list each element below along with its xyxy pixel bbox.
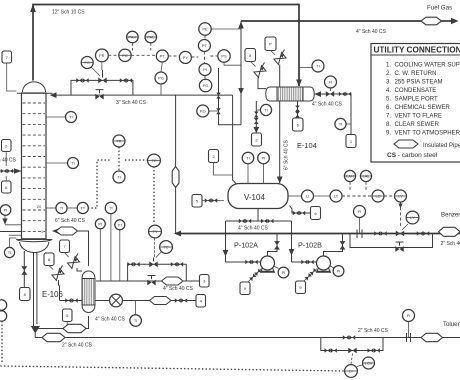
svg-text:6" Sch 40 CS: 6" Sch 40 CS — [284, 139, 290, 170]
pump B discharge with valve — [324, 234, 346, 257]
toluene main line block valves — [343, 335, 355, 340]
column bottoms line (double) — [31, 252, 40, 338]
instrument LAH LAL — [344, 170, 355, 191]
pressure control valve PCV-A — [254, 63, 266, 89]
instrument PT — [156, 50, 168, 62]
reflux riser from pump header — [175, 95, 177, 233]
instrument LC — [342, 190, 384, 202]
svg-text:CONDENSATE: CONDENSATE — [395, 87, 437, 94]
svg-text:PI: PI — [282, 270, 286, 275]
instrument FC (reflux controller) — [81, 57, 100, 77]
svg-text:UTILITY CONNECTIONS: UTILITY CONNECTIONS — [374, 46, 460, 55]
pump B drain to square 9 — [296, 268, 318, 293]
svg-text:20: 20 — [37, 205, 41, 209]
svg-text:P-102B: P-102B — [298, 241, 322, 250]
svg-text:TI: TI — [60, 206, 64, 211]
svg-text:Toluene: Toluene — [443, 321, 460, 328]
svg-text:255 PSIA STEAM: 255 PSIA STEAM — [395, 79, 443, 86]
svg-text:PY: PY — [183, 55, 189, 60]
instrument PI (column bottom left) — [0, 205, 21, 225]
svg-text:PG: PG — [158, 76, 164, 81]
svg-text:6.: 6. — [386, 104, 391, 111]
svg-text:PI: PI — [203, 67, 207, 72]
vapor bypass line from reflux line to V-104 — [233, 95, 236, 183]
svg-text:TI: TI — [316, 64, 320, 69]
svg-text:FI: FI — [407, 313, 411, 318]
dashed signal PY to PT2 — [191, 56, 198, 58]
instrument TI chain low — [113, 171, 125, 183]
svg-text:E-104: E-104 — [297, 141, 317, 150]
instrument PI stack — [199, 52, 211, 76]
utility tag square (feed vent) — [2, 140, 12, 167]
svg-text:3" Sch 40 CS: 3" Sch 40 CS — [116, 100, 147, 106]
svg-text:TI: TI — [69, 115, 73, 120]
pump A drain to square 9 — [240, 268, 262, 294]
controller circle bars — [81, 37, 419, 371]
utility tag square P (PCV B inlet) — [265, 37, 276, 55]
line into column left at sump — [0, 231, 22, 233]
instrument TC chain — [148, 154, 161, 167]
svg-text:TI: TI — [8, 250, 12, 255]
svg-text:Fuel Gas: Fuel Gas — [427, 5, 452, 12]
instrument PG stack low — [199, 76, 211, 92]
reboiler feed line — [37, 316, 89, 329]
svg-text:5.: 5. — [386, 96, 391, 103]
svg-text:6" Sch 40 CS: 6" Sch 40 CS — [55, 218, 86, 224]
instrument LY at benzene valve — [406, 211, 419, 224]
V-104 right drain to square 6 — [290, 206, 321, 220]
svg-text:TI: TI — [109, 206, 113, 211]
svg-text:3.: 3. — [386, 79, 391, 86]
column nozzle TI middle — [46, 158, 79, 169]
reflux globe valve (bypass) — [95, 90, 103, 100]
toluene product line 2" — [35, 337, 460, 339]
svg-text:LT: LT — [334, 194, 339, 199]
svg-text:PI: PI — [337, 269, 341, 274]
svg-text:PG: PG — [200, 109, 206, 114]
svg-text:4" Sch 40 CS: 4" Sch 40 CS — [95, 317, 126, 323]
svg-text:LI: LI — [306, 194, 309, 199]
svg-text:4" Sch 40 CS: 4" Sch 40 CS — [163, 286, 194, 292]
reflux return line 3" into column — [50, 92, 233, 98]
instrument PG (vent leg) — [197, 105, 219, 117]
instrument TI on V-104 — [242, 152, 254, 183]
svg-text:V-104: V-104 — [244, 193, 265, 202]
V-104 reflux drum — [228, 184, 288, 209]
instrument LT — [314, 190, 343, 202]
distillation column T-101 shell — [17, 82, 53, 239]
utility tag square 1 (cooling water) — [346, 135, 356, 148]
instrument FR — [96, 49, 109, 70]
svg-text:1: 1 — [41, 230, 43, 234]
svg-text:VENT TO ATMOSPHERE: VENT TO ATMOSPHERE — [395, 130, 460, 137]
instrument LY — [384, 190, 407, 226]
utility tag square 6 (E-104 right drain) — [293, 118, 304, 131]
svg-text:4" Sch 40 CS: 4" Sch 40 CS — [238, 226, 269, 232]
svg-text:4" Sch 40 CS: 4" Sch 40 CS — [312, 102, 343, 108]
column nozzle TI upper — [46, 112, 77, 123]
svg-text:SAMPLE PORT: SAMPLE PORT — [395, 96, 439, 103]
column trays (dashed) — [23, 103, 46, 231]
column bottom flange and dome — [16, 239, 52, 253]
svg-text:4" Sch 40 CS: 4" Sch 40 CS — [0, 158, 17, 164]
utility tag square 5 (sample) with valves to V-104 — [192, 195, 224, 208]
svg-text:CS - carbon steel: CS - carbon steel — [387, 152, 438, 159]
svg-text:Insulated Pipe: Insulated Pipe — [423, 143, 460, 149]
manifold right drop to pump B — [289, 221, 317, 264]
toluene orifice and FI — [403, 310, 415, 343]
fuel gas header line — [241, 18, 459, 24]
svg-text:2" Sch 40: 2" Sch 40 — [441, 241, 460, 247]
svg-text:TI: TI — [339, 122, 343, 127]
insulated symbol vapor return — [56, 227, 78, 235]
utility tag square 4 (condensate) — [196, 295, 206, 308]
instrument LY toluene — [345, 354, 358, 378]
svg-text:PE: PE — [202, 27, 208, 32]
fuel gas vent leg with block valves — [216, 68, 241, 125]
instrument LI — [288, 190, 314, 202]
reflux control valve FCV — [98, 70, 106, 83]
steam control valve TCV with loop — [127, 258, 186, 282]
utility tag square 8 (PCV A inlet) — [245, 49, 256, 67]
instrument TI steam (large) — [105, 202, 116, 281]
utility tag square 2 (E-104 drain) — [252, 133, 262, 146]
instrument LC toluene — [357, 357, 375, 369]
svg-text:PS: PS — [221, 54, 227, 59]
instrument FI at E-104 outlet — [325, 76, 337, 91]
svg-text:1.: 1. — [386, 62, 391, 69]
steam TC near valve — [156, 241, 172, 258]
instrument TI on overhead riser — [299, 60, 324, 72]
instrument TI (column skirt) — [4, 238, 16, 258]
instrument PI steam — [95, 219, 105, 281]
svg-text:TT: TT — [80, 206, 85, 211]
svg-text:7.: 7. — [386, 113, 391, 120]
utility tag square 5 (E-106 bottom) — [63, 309, 73, 325]
column nozzle TI / TT pair — [46, 202, 88, 213]
utility tag square (feed drain) — [2, 176, 12, 193]
instrument PS — [210, 50, 241, 65]
instrument PY — [179, 51, 191, 63]
steam line from utility to E-106 — [96, 276, 200, 286]
instrument PT2 — [198, 35, 210, 51]
instrument PC — [119, 49, 131, 61]
E-104 left drain leg — [254, 101, 260, 133]
signal dotted TT to temperature controller chain — [88, 148, 154, 225]
insulated symbol toluene near column — [42, 333, 65, 341]
pump suction / product header — [174, 231, 460, 237]
toluene LCV station bypass loop — [321, 338, 383, 354]
svg-text:PG: PG — [203, 83, 209, 88]
overhead vapor line 12" to E-104 — [30, 4, 302, 87]
instrument TY top — [113, 135, 125, 147]
V-104 bottom outlet manifold — [226, 209, 292, 224]
svg-text:PI: PI — [262, 156, 266, 161]
svg-text:VENT TO FLARE: VENT TO FLARE — [395, 113, 442, 120]
pump P-102B — [298, 241, 331, 273]
svg-text:9.: 9. — [386, 130, 391, 137]
insulated symbol benzene — [439, 227, 460, 236]
svg-text:12" Sch 10 CS: 12" Sch 10 CS — [52, 10, 85, 16]
pump A discharge with valve — [268, 234, 280, 257]
pump P-102A — [234, 241, 275, 273]
benzene line block valves — [374, 231, 429, 236]
svg-text:4.: 4. — [386, 87, 391, 94]
instrument TI on cw leg — [335, 118, 351, 129]
svg-text:P-102A: P-102A — [234, 241, 258, 250]
svg-text:FI: FI — [358, 209, 362, 214]
svg-text:FR: FR — [99, 53, 104, 58]
svg-text:TI: TI — [134, 318, 138, 323]
insulated symbol toluene product — [421, 333, 443, 341]
condensate line 6" from E-104 to V-104 — [277, 101, 283, 184]
svg-text:PI: PI — [118, 222, 122, 227]
feed line into column — [0, 168, 22, 174]
svg-text:Benzene: Benzene — [441, 212, 460, 219]
utility tag square 3 (steam) — [200, 275, 210, 288]
utility tag square 8 (E-106) — [44, 253, 54, 270]
svg-text:CHEMICAL SEWER: CHEMICAL SEWER — [395, 104, 451, 111]
instrument TI (E-104 drain) — [256, 104, 271, 115]
cooling water return line from E-104 — [314, 91, 351, 134]
instrument PI pump B — [330, 266, 344, 277]
svg-text:FI: FI — [329, 80, 333, 85]
utility tag square 2 (V-104 vent) — [209, 150, 233, 176]
svg-text:TI: TI — [246, 156, 250, 161]
manifold left drop to pump A — [223, 221, 261, 264]
E-106 reboiler shell — [82, 271, 95, 313]
angle valve on E-106 drain — [52, 266, 64, 301]
fuel gas riser — [238, 21, 244, 125]
svg-text:PT: PT — [160, 54, 166, 59]
condensate block valves — [175, 298, 187, 303]
svg-text:PI: PI — [98, 221, 102, 226]
svg-text:P: P — [269, 42, 272, 47]
insulated symbol steam — [162, 277, 184, 285]
steam TY on control chain — [149, 225, 162, 258]
instrument PE (fuel gas) — [199, 23, 241, 35]
svg-text:TI: TI — [117, 175, 121, 180]
svg-text:COOLING WATER SUPPLY: COOLING WATER SUPPLY — [395, 62, 460, 69]
svg-text:TI: TI — [71, 161, 75, 166]
E-106 left inlet with valves — [60, 298, 83, 303]
instrument PI on V-104 — [258, 152, 270, 183]
svg-text:TI: TI — [264, 108, 268, 113]
column bottoms drain branch — [20, 251, 31, 301]
insulated symbol reboiler feed — [63, 324, 86, 332]
instrument PAH — [127, 31, 139, 50]
svg-text:PT: PT — [202, 43, 208, 48]
utility connections box — [371, 44, 460, 163]
svg-text:C. W. RETURN: C. W. RETURN — [395, 70, 437, 77]
instrument FI steam — [115, 220, 125, 281]
instrument PG on reflux line — [155, 62, 167, 95]
level signal dotted line to toluene LY — [1, 366, 344, 371]
benzene control valve LCV — [396, 224, 408, 236]
instrument PAL — [145, 31, 157, 50]
utility tag square 7 (E-106) — [60, 240, 70, 257]
svg-text:CLEAR SEWER: CLEAR SEWER — [395, 121, 440, 128]
svg-text:2" Sch 40 CS: 2" Sch 40 CS — [62, 343, 93, 349]
reflux control loop over line — [71, 78, 133, 95]
reboiler vapor return to column — [52, 228, 89, 266]
insulated symbol on riser (vertical) — [172, 167, 179, 188]
svg-text:8.: 8. — [386, 121, 391, 128]
svg-text:4" Sch 40 CS: 4" Sch 40 CS — [356, 29, 387, 35]
angle valve on E-106 vent — [67, 254, 82, 272]
pressure control valve PCV-B — [274, 50, 286, 88]
dashed signal PT to PY — [168, 55, 179, 57]
condensate line from E-106 — [95, 294, 196, 307]
instrument PI pump A — [274, 266, 289, 278]
insulated symbol fuel gas — [421, 17, 442, 25]
svg-text:PI: PI — [4, 208, 8, 213]
E-104 right drain leg — [295, 101, 300, 118]
instrument TI on condensate line — [130, 301, 142, 327]
insulated symbol condensate — [150, 297, 172, 305]
dashed signal FR to PC to PT — [108, 54, 119, 56]
benzene product FI with orifice — [354, 206, 366, 239]
svg-text:2" Sch 40 CS: 2" Sch 40 CS — [358, 328, 389, 334]
instrument LT column bottom (edge) — [0, 300, 7, 362]
svg-text:2.: 2. — [386, 70, 391, 77]
utility tag square 7 (column top) — [2, 51, 17, 91]
E-104 condenser shell — [266, 87, 314, 101]
benzene bypass loop — [350, 234, 433, 252]
